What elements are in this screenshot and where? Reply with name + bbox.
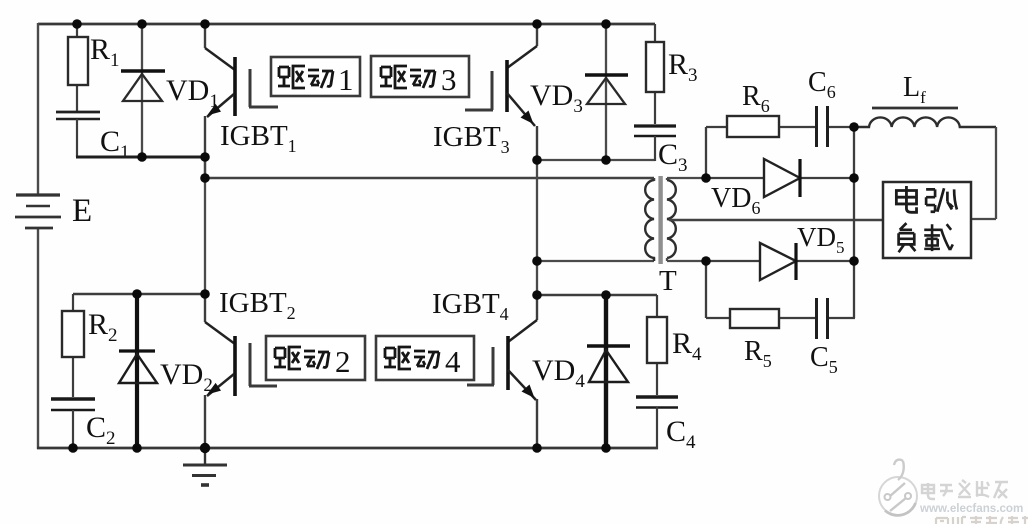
wire: R6 branch risers	[706, 127, 855, 178]
svg-text:2: 2	[335, 344, 351, 379]
wire: leg1 midpoint to transformer primary top	[205, 157, 654, 181]
wire: cathode bus x854	[853, 127, 855, 318]
resistor R5	[730, 309, 779, 328]
svg-text:R1: R1	[90, 33, 120, 71]
wire: left battery column upper	[37, 23, 39, 194]
svg-text:VD6: VD6	[711, 183, 760, 218]
svg-text:C5: C5	[810, 342, 838, 377]
junction dots leg2	[532, 155, 611, 300]
svg-text:1: 1	[338, 62, 354, 97]
wire: secondary top lead	[667, 178, 706, 180]
wire: leg2 snubber top wire	[537, 294, 657, 296]
watermark title 电子发烧友	[922, 480, 1008, 499]
wire: leg2 column IGBT3 to IGBT4	[536, 160, 538, 295]
svg-text:C2: C2	[86, 411, 116, 449]
diode VD4	[587, 295, 630, 448]
svg-text:R5: R5	[744, 336, 772, 371]
svg-text:VD2: VD2	[160, 358, 213, 396]
wire: secondary center tap to load	[669, 219, 883, 222]
svg-text:R2: R2	[88, 308, 118, 346]
capacitor C4	[636, 397, 678, 449]
resistor R6	[727, 116, 779, 137]
wire: right edge down to load	[971, 127, 996, 219]
diode VD3	[585, 24, 628, 160]
inductor L	[854, 108, 996, 127]
diode VD5	[706, 243, 855, 280]
wire: bottom rail	[37, 447, 658, 450]
svg-text:R3: R3	[668, 48, 698, 86]
transistor IGBT1	[205, 24, 278, 158]
junction dots rectifier	[701, 122, 859, 266]
svg-text:VD1: VD1	[166, 74, 219, 112]
svg-text:C4: C4	[666, 415, 696, 453]
transistor IGBT2	[205, 294, 277, 448]
capacitor C3	[634, 126, 676, 161]
svg-text:C6: C6	[808, 67, 836, 102]
svg-text:www.elecfans.com: www.elecfans.com	[919, 502, 1023, 515]
wire: leg2 midpoint rail	[537, 159, 655, 161]
driver box 驱动4	[376, 336, 474, 380]
driver box 驱动3	[371, 56, 469, 97]
svg-text:T: T	[659, 265, 677, 297]
resistor R2	[62, 294, 84, 397]
junction dots top rail	[72, 19, 611, 29]
junction dots leg1	[132, 152, 210, 299]
svg-text:IGBT4: IGBT4	[432, 288, 509, 324]
wire: leg2 snubber top rail	[73, 293, 206, 295]
svg-text:VD4: VD4	[532, 354, 585, 392]
svg-text:3: 3	[441, 62, 457, 97]
wire: transformer primary bottom lead	[537, 258, 654, 261]
svg-text:C3: C3	[658, 138, 688, 176]
svg-text:E: E	[72, 193, 92, 229]
transformer T core	[658, 176, 662, 264]
capacitor C5	[817, 298, 828, 339]
diode VD1	[121, 24, 165, 157]
resistor R1	[68, 24, 88, 112]
transistor IGBT3	[465, 24, 537, 160]
transistor IGBT4	[467, 295, 537, 448]
svg-text:R4: R4	[672, 327, 702, 365]
svg-text:IGBT3: IGBT3	[433, 121, 510, 157]
driver box 驱动1	[271, 57, 360, 97]
battery E	[15, 195, 61, 228]
svg-text:4: 4	[445, 344, 461, 379]
svg-text:Lf: Lf	[903, 72, 926, 107]
capacitor C1	[56, 112, 100, 157]
wire: top DC rail	[38, 23, 655, 26]
capacitor C6	[817, 106, 828, 147]
wire: R5 branch	[706, 261, 855, 318]
resistor R3	[646, 24, 664, 124]
diode VD2	[119, 294, 157, 448]
load box 电弧负载	[883, 182, 971, 258]
svg-text:R6: R6	[742, 81, 770, 116]
wire: secondary bottom lead	[667, 258, 706, 261]
svg-text:IGBT2: IGBT2	[219, 287, 296, 323]
svg-text:VD5: VD5	[797, 222, 845, 257]
capacitor C2	[51, 399, 95, 448]
diode VD6	[706, 159, 855, 197]
svg-text:VD3: VD3	[530, 79, 583, 117]
driver box 驱动2	[266, 336, 365, 380]
transformer T secondary winding	[667, 180, 676, 258]
transformer T primary winding	[645, 180, 654, 261]
wire: left battery column lower	[37, 229, 39, 449]
resistor R4	[647, 295, 667, 395]
ground	[183, 448, 227, 485]
wire: leg1 snubber bottom rail	[76, 156, 206, 159]
watermark caption 图片来源	[936, 516, 1028, 524]
watermark logo circle	[879, 460, 917, 516]
svg-text:IGBT1: IGBT1	[220, 120, 297, 156]
wire: leg1 column down to IGBT2	[204, 178, 206, 295]
junction dots bottom rail	[68, 443, 611, 453]
